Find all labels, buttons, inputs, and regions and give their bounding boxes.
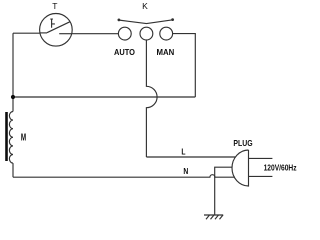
svg-text:MAN: MAN bbox=[157, 48, 175, 57]
svg-text:AUTO: AUTO bbox=[114, 48, 135, 58]
svg-text:120V/60Hz: 120V/60Hz bbox=[264, 163, 297, 173]
svg-text:PLUG: PLUG bbox=[233, 138, 252, 148]
svg-text:M: M bbox=[21, 131, 26, 143]
svg-text:T: T bbox=[52, 1, 57, 11]
svg-text:N: N bbox=[183, 166, 188, 176]
svg-text:K: K bbox=[142, 1, 148, 11]
svg-text:L: L bbox=[181, 147, 185, 157]
